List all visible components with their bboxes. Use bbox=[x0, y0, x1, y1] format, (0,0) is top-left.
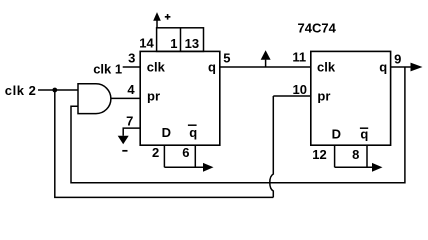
wire clk2 to AND input 1 bbox=[38, 89, 79, 91]
wire feedback q9 to AND input 2 bbox=[71, 67, 405, 183]
svg-text:2: 2 bbox=[152, 145, 159, 160]
svg-text:pr: pr bbox=[317, 88, 330, 103]
header divider bbox=[180, 28, 182, 52]
wire q pin 9 output bbox=[391, 66, 411, 68]
svg-text:12: 12 bbox=[312, 147, 326, 162]
svg-text:6: 6 bbox=[182, 145, 189, 160]
wire into pin 10 pr bbox=[273, 95, 311, 97]
svg-text:11: 11 bbox=[292, 50, 306, 65]
AND gate G1 bbox=[78, 84, 111, 114]
svg-text:clk 1: clk 1 bbox=[93, 61, 122, 76]
svg-text:clk: clk bbox=[147, 59, 166, 74]
wire q5 to clk11 bbox=[220, 66, 311, 68]
U1B D-qbar tie right leg (pin 8) bbox=[366, 145, 368, 167]
wire clk2 branch to pin 10 (bottom run) bbox=[55, 90, 273, 197]
U1B tie bottom wire bbox=[335, 166, 373, 168]
clock edge arrow stub bbox=[265, 60, 267, 67]
svg-text:10: 10 bbox=[293, 82, 307, 97]
svg-text:D: D bbox=[332, 126, 341, 141]
flip-flop U1B box bbox=[311, 51, 391, 145]
U1A tie bottom wire bbox=[164, 166, 203, 168]
svg-text:clk: clk bbox=[317, 59, 336, 74]
svg-text:q: q bbox=[208, 59, 216, 74]
pin 7 wire and stub bbox=[123, 128, 140, 136]
U1A D-qbar tie left leg (pin 2) bbox=[163, 145, 165, 167]
svg-text:q: q bbox=[189, 125, 197, 140]
svg-text:q: q bbox=[379, 59, 387, 74]
svg-text:9: 9 bbox=[394, 52, 401, 67]
svg-text:4: 4 bbox=[127, 82, 135, 97]
flip-flop U1A box bbox=[140, 51, 220, 145]
pin 9 output arrowhead bbox=[411, 63, 423, 72]
svg-text:1: 1 bbox=[170, 36, 177, 51]
svg-text:5: 5 bbox=[223, 51, 230, 66]
wire AND output to pin 4 bbox=[111, 97, 140, 99]
svg-text:D: D bbox=[162, 125, 171, 140]
U1B D-qbar tie left leg (pin 12) bbox=[334, 145, 336, 167]
ground arrowhead (down) bbox=[118, 136, 129, 144]
svg-text:8: 8 bbox=[352, 147, 359, 162]
label + bbox=[165, 14, 171, 20]
svg-text:pr: pr bbox=[147, 88, 160, 103]
U1A qbar overline bbox=[188, 124, 197, 126]
wire clk1 to pin 3 bbox=[123, 66, 141, 68]
U1B output arrowhead bbox=[372, 163, 383, 172]
junction dot on clk2 bbox=[52, 88, 57, 93]
U1A output arrowhead bbox=[203, 163, 214, 172]
label - (minus) bbox=[122, 150, 127, 152]
svg-text:7: 7 bbox=[126, 113, 133, 128]
U1B qbar overline bbox=[360, 127, 368, 129]
power arrow stub bbox=[156, 20, 158, 28]
svg-text:13: 13 bbox=[185, 36, 199, 51]
svg-text:3: 3 bbox=[128, 50, 135, 65]
wire riser to pin 10 with hop over feedback wire bbox=[270, 96, 274, 197]
svg-text:74C74: 74C74 bbox=[298, 21, 337, 36]
svg-text:clk 2: clk 2 bbox=[5, 83, 37, 98]
U1A power header box pins 14/1/13 bbox=[157, 28, 204, 52]
clock edge arrowhead (up) bbox=[261, 50, 271, 60]
svg-text:14: 14 bbox=[139, 35, 154, 50]
power arrowhead bbox=[153, 12, 161, 21]
U1A D-qbar tie right leg (pin 6) bbox=[194, 145, 196, 167]
